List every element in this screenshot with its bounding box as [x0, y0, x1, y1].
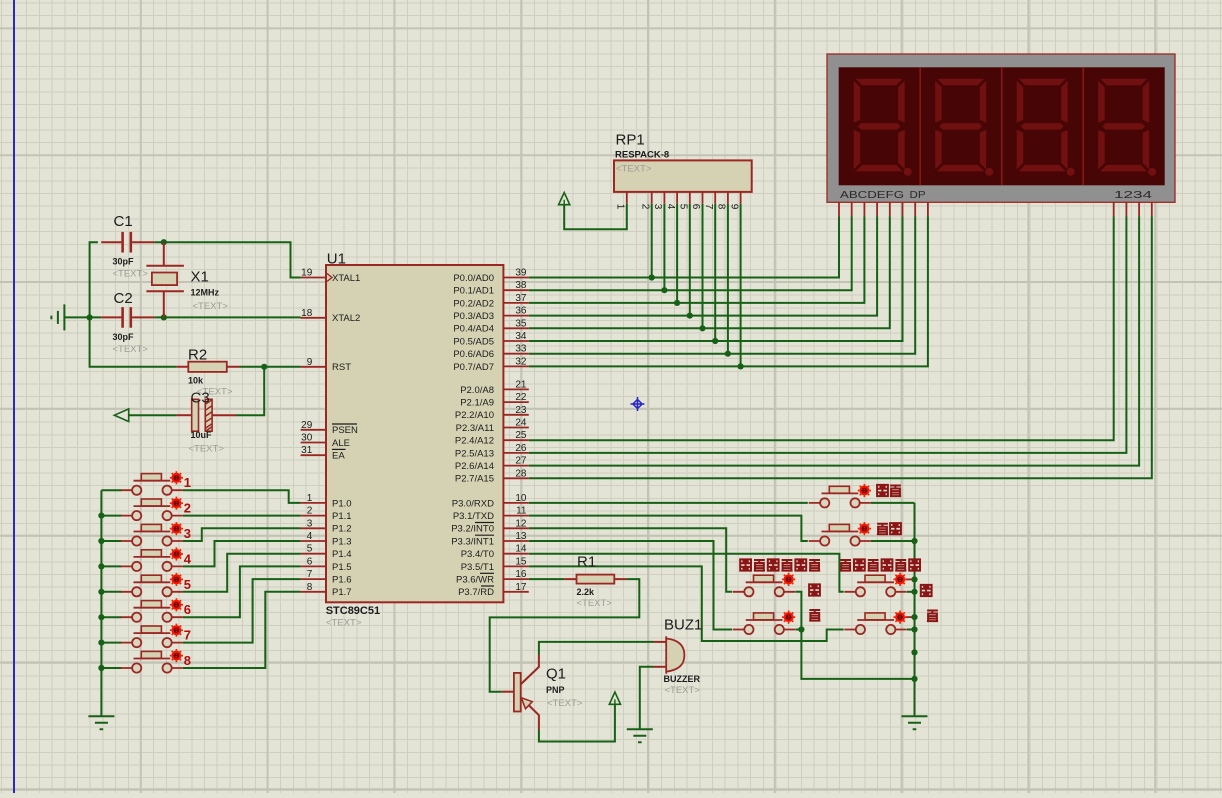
svg-text:Q1: Q1: [546, 666, 566, 683]
buzzer BUZ1 body: [666, 636, 684, 674]
svg-text:8: 8: [307, 582, 313, 593]
ground (button rail): [902, 716, 928, 729]
svg-text:<TEXT>: <TEXT>: [113, 269, 149, 280]
svg-text:P1.6: P1.6: [332, 575, 352, 586]
svg-text:<TEXT>: <TEXT>: [113, 344, 149, 355]
svg-text:21: 21: [515, 379, 527, 390]
svg-text:1: 1: [184, 475, 191, 490]
svg-text:3: 3: [307, 518, 313, 529]
wire P0.3 net: [529, 216, 877, 316]
ground (buzzer): [627, 729, 653, 742]
push button L-decrease (jian): [733, 611, 795, 635]
digit 2: [935, 79, 993, 176]
wire R inc right: [907, 591, 915, 593]
junction rail-Lgroup: [911, 676, 917, 682]
svg-text:PNP: PNP: [546, 685, 565, 695]
wire P3.4 net (R inc btn): [529, 554, 844, 592]
digit 1: [854, 79, 912, 176]
junction rail-Rinc: [911, 589, 917, 595]
svg-text:25: 25: [515, 430, 527, 441]
wire RP1 pin6 drop: [702, 204, 704, 328]
wire P3.6 net to R1: [529, 578, 564, 580]
svg-text:2: 2: [307, 506, 313, 517]
svg-text:XTAL1: XTAL1: [332, 273, 360, 284]
wire P3.5 net (R dec btn): [529, 566, 844, 641]
wire button rail: [101, 490, 121, 716]
svg-text:19: 19: [301, 268, 313, 279]
svg-text:X1: X1: [191, 269, 209, 286]
junction rail-Rdec-star: [911, 614, 917, 620]
svg-text:14: 14: [515, 544, 527, 555]
push button START (qidong): [809, 484, 871, 508]
wire R inc star stub: [906, 578, 915, 580]
push button R-decrease (jian): [844, 611, 906, 635]
svg-text:24: 24: [515, 418, 527, 429]
junction rail-button2: [98, 513, 104, 519]
svg-text:4: 4: [665, 204, 676, 210]
push button 2: [121, 497, 183, 521]
svg-text:23: 23: [515, 405, 527, 416]
svg-text:17: 17: [515, 582, 527, 593]
resistor R1: [577, 575, 615, 584]
wire C3 to arrow: [129, 414, 177, 416]
RP1 pin stubs: [627, 192, 741, 204]
push button 7: [121, 624, 183, 648]
svg-text:P1.5: P1.5: [332, 562, 352, 573]
svg-text:P0.4/AD4: P0.4/AD4: [453, 324, 494, 335]
svg-text:8: 8: [184, 653, 191, 668]
wire C1 pins: [101, 241, 154, 243]
svg-text:27: 27: [515, 456, 527, 467]
svg-text:P2.0/A8: P2.0/A8: [460, 385, 494, 396]
svg-text:2.2k: 2.2k: [577, 587, 596, 597]
wire BUZ1 top pin: [654, 641, 667, 643]
junction P0.6-RP1 junction: [725, 351, 731, 357]
junction RST node: [261, 364, 267, 370]
push button 6: [121, 598, 183, 622]
svg-text:6: 6: [184, 602, 191, 617]
svg-text:BUZZER: BUZZER: [664, 674, 701, 684]
wire P0.6 net: [529, 216, 915, 354]
svg-text:P2.2/A10: P2.2/A10: [455, 410, 494, 421]
wire P0.0 net: [529, 216, 839, 277]
wire RP1 pin3 drop: [663, 204, 665, 290]
svg-text:4: 4: [307, 531, 313, 542]
junction rail-button8: [98, 665, 104, 671]
svg-text:15: 15: [515, 556, 527, 567]
wire R dec star stub: [906, 616, 915, 618]
wire RP1 pin7 drop: [714, 204, 716, 341]
svg-text:<TEXT>: <TEXT>: [193, 301, 229, 312]
junction rail-button6: [98, 614, 104, 620]
junction rail-button3: [98, 538, 104, 544]
svg-text:10: 10: [515, 493, 527, 504]
capacitor C1: [123, 232, 131, 253]
junction GND node: [87, 314, 93, 320]
digit 4: [1098, 79, 1156, 176]
wire P2.5 net (digit 2): [529, 216, 1127, 453]
svg-text:5: 5: [184, 577, 191, 592]
svg-text:P1.2: P1.2: [332, 524, 352, 535]
wire P3.2 net (L inc btn): [529, 528, 732, 592]
svg-text:R2: R2: [188, 347, 207, 364]
wire RP1 pin2 drop: [651, 204, 653, 278]
wire RP1 pin8 drop: [727, 204, 729, 354]
svg-text:P0.2/AD2: P0.2/AD2: [453, 298, 494, 309]
svg-text:6: 6: [307, 556, 313, 567]
svg-text:<TEXT>: <TEXT>: [665, 685, 701, 696]
wire XTAL1 net: [154, 242, 300, 277]
svg-text:30pF: 30pF: [113, 257, 135, 267]
junction rail-mid: [911, 649, 917, 655]
wire Q1 emitter pin: [521, 698, 539, 730]
wire RP1 pin1 to VCC: [564, 204, 627, 229]
power terminal VCC (RP1): [559, 193, 570, 205]
digit 3: [1017, 79, 1075, 176]
wire GND to C2: [64, 316, 101, 318]
svg-text:36: 36: [515, 306, 527, 317]
wire RST net: [240, 366, 301, 368]
ground (button column): [88, 716, 114, 729]
wire P0.5 net: [529, 216, 903, 341]
wire P2.4 net (digit 1): [529, 216, 1114, 440]
svg-text:26: 26: [515, 443, 527, 454]
label jia: [809, 584, 820, 595]
wire button8 to P1.7: [183, 592, 301, 668]
wire BUZ1 to ground: [640, 667, 654, 730]
svg-text:ALE: ALE: [332, 438, 350, 449]
wire button8 left branch: [101, 667, 121, 669]
wire Q1 base pin: [502, 691, 514, 693]
svg-text:7: 7: [307, 569, 313, 580]
svg-text:5: 5: [678, 204, 689, 210]
junction P0.0-RP1 junction: [649, 274, 655, 280]
Q1 emitter arrow: [521, 698, 532, 709]
wire P2.7 net (digit 4): [529, 216, 1152, 478]
transistor Q1 base bar: [514, 673, 521, 712]
push button 5: [121, 573, 183, 597]
wire RP1 pin9 drop: [740, 204, 742, 367]
label fuwei (reset): [877, 523, 888, 534]
svg-text:9: 9: [307, 357, 313, 368]
svg-text:DP: DP: [910, 189, 926, 201]
wire start btn right: [871, 502, 915, 504]
wire R1 pins: [564, 578, 626, 580]
svg-text:18: 18: [301, 308, 313, 319]
push button 8: [121, 649, 183, 673]
svg-text:P0.1/AD1: P0.1/AD1: [453, 286, 494, 297]
junction rail-Rdec: [911, 626, 917, 632]
svg-text:P3.3/INT1: P3.3/INT1: [451, 536, 494, 547]
push button 4: [121, 547, 183, 571]
svg-text:31: 31: [301, 445, 313, 456]
svg-text:P1.4: P1.4: [332, 549, 352, 560]
svg-text:U1: U1: [327, 251, 346, 268]
wire button5 to P1.4: [183, 554, 301, 592]
wire button5 left branch: [101, 591, 121, 593]
svg-text:10k: 10k: [188, 376, 204, 386]
wire X1 bottom pin: [163, 291, 165, 317]
svg-text:1: 1: [615, 204, 626, 210]
wire L inc right: [795, 592, 801, 630]
capacitor C3 (polarized): [192, 399, 199, 431]
svg-text:<TEXT>: <TEXT>: [616, 164, 652, 175]
wire R1 to Q1 base: [490, 579, 640, 692]
push button 3: [121, 522, 183, 546]
svg-text:<TEXT>: <TEXT>: [577, 598, 613, 609]
svg-text:ABCDEFG: ABCDEFG: [840, 189, 904, 201]
svg-text:P0.0/AD0: P0.0/AD0: [453, 273, 494, 284]
svg-text:C1: C1: [114, 213, 133, 230]
svg-text:22: 22: [515, 392, 527, 403]
svg-text:P3.1/TXD: P3.1/TXD: [453, 511, 494, 522]
wire P3.0 net (start btn): [529, 502, 808, 504]
wire ground rail: [914, 503, 916, 716]
wire reset btn right: [871, 540, 915, 542]
svg-text:<TEXT>: <TEXT>: [189, 444, 225, 455]
svg-text:P3.4/T0: P3.4/T0: [461, 549, 494, 560]
junction rail-button7: [98, 640, 104, 646]
svg-text:RST: RST: [332, 362, 351, 373]
svg-text:1234: 1234: [1114, 189, 1152, 201]
wire button7 to P1.6: [183, 579, 301, 643]
svg-text:<TEXT>: <TEXT>: [547, 698, 583, 709]
svg-text:R1: R1: [577, 554, 596, 571]
U1 right pin stubs: [503, 278, 528, 592]
junction C1-X1 node: [161, 239, 167, 245]
junction rail-button5: [98, 589, 104, 595]
wire C2 pins: [101, 316, 154, 318]
junction rail-button4: [98, 563, 104, 569]
label jia (right): [921, 585, 932, 596]
svg-text:P0.6/AD6: P0.6/AD6: [453, 349, 494, 360]
svg-text:P2.7/A15: P2.7/A15: [455, 474, 494, 485]
junction rail-Rinc-star: [911, 576, 917, 582]
wire Q1 collector pin: [521, 655, 539, 685]
svg-text:1: 1: [307, 493, 313, 504]
wire R dec right: [907, 629, 915, 631]
svg-text:P2.1/A9: P2.1/A9: [460, 398, 494, 409]
svg-text:RESPACK-8: RESPACK-8: [615, 150, 669, 161]
label qidong (start): [877, 485, 888, 496]
svg-text:2: 2: [639, 204, 650, 210]
U1 XTAL1 clock mark: [327, 274, 332, 282]
svg-text:3: 3: [652, 204, 663, 210]
wire L dec right: [795, 629, 801, 631]
svg-text:P0.7/AD7: P0.7/AD7: [453, 362, 494, 373]
svg-text:11: 11: [516, 506, 527, 517]
junction P0.3-RP1 junction: [687, 313, 693, 319]
wire RP1 pin4 drop: [676, 204, 678, 303]
junction P0.1-RP1 junction: [661, 287, 667, 293]
power terminal VCC (Q1 emitter): [609, 692, 620, 704]
svg-text:34: 34: [515, 331, 527, 342]
svg-text:30: 30: [301, 433, 313, 444]
label jian: [809, 609, 820, 620]
crystal X1: [146, 266, 184, 292]
wire RP1 pin5 drop: [689, 204, 691, 316]
svg-text:2: 2: [184, 501, 191, 516]
junction C2-X1 node: [161, 314, 167, 320]
svg-text:EA: EA: [332, 451, 345, 462]
wire X1 top pin: [163, 242, 165, 266]
svg-text:P2.3/A11: P2.3/A11: [456, 423, 494, 434]
svg-text:29: 29: [301, 420, 313, 431]
sheet border (blue): [13, 0, 15, 793]
junction P0.7-RP1 junction: [738, 363, 744, 369]
svg-text:39: 39: [515, 268, 527, 279]
display pins: [839, 202, 1152, 216]
svg-text:30pF: 30pF: [113, 332, 135, 342]
display digit separators: [920, 67, 1083, 185]
wire C3 branch: [236, 367, 264, 415]
svg-text:7: 7: [703, 204, 714, 210]
svg-text:4: 4: [184, 551, 192, 566]
svg-text:12: 12: [515, 518, 527, 529]
wire P3.1 net (reset btn): [529, 516, 808, 541]
wire P0.2 net: [529, 216, 865, 303]
svg-text:35: 35: [515, 318, 527, 329]
svg-text:P3.0/RXD: P3.0/RXD: [452, 498, 494, 509]
svg-text:P2.5/A13: P2.5/A13: [455, 448, 494, 459]
svg-text:6: 6: [690, 204, 701, 210]
svg-text:12MHz: 12MHz: [191, 288, 220, 298]
wire XTAL2 net: [154, 316, 300, 318]
wire button1 to P1.0: [183, 490, 301, 503]
svg-text:P3.6/WR: P3.6/WR: [456, 575, 494, 586]
wire button4 to P1.3: [183, 541, 301, 566]
svg-text:P1.7: P1.7: [332, 587, 352, 598]
svg-text:P0.3/AD3: P0.3/AD3: [453, 311, 494, 322]
title tiaozheng dati shijian: [840, 559, 851, 570]
IC U1 STC89C51 body: [326, 265, 503, 602]
wire P0.1 net: [529, 216, 852, 290]
svg-text:38: 38: [515, 280, 527, 291]
svg-text:P3.2/INT0: P3.2/INT0: [451, 524, 494, 535]
wire C3 left pin: [176, 414, 191, 416]
junction rail-reset: [911, 538, 917, 544]
wire Q1 collector to BUZ1: [539, 642, 654, 655]
junction P0.5-RP1 junction: [712, 338, 718, 344]
wire R2 pins: [176, 366, 239, 368]
resistor R2: [188, 362, 227, 372]
wire button2 left branch: [101, 515, 121, 517]
wire button3 to P1.2: [183, 528, 301, 541]
svg-text:<TEXT>: <TEXT>: [326, 618, 362, 629]
wire button6 to P1.5: [183, 566, 301, 617]
push button 1: [121, 471, 183, 495]
svg-text:C2: C2: [114, 290, 133, 307]
wire Q1 emitter to VCC: [539, 704, 615, 741]
U1 left pin stubs: [301, 278, 326, 592]
wire button3 left branch: [101, 540, 121, 542]
svg-text:P3.7/RD: P3.7/RD: [458, 587, 494, 598]
wire P0.4 net: [529, 216, 890, 328]
wire button6 left branch: [101, 616, 121, 618]
svg-text:37: 37: [515, 293, 527, 304]
svg-text:C3: C3: [191, 390, 210, 407]
wire L group to rail: [801, 630, 914, 679]
svg-text:28: 28: [515, 468, 527, 479]
svg-text:10uF: 10uF: [191, 430, 213, 440]
wire P3.3 net (L dec btn): [529, 541, 732, 630]
7-segment display body: [827, 54, 1175, 202]
svg-text:13: 13: [515, 531, 527, 542]
junction L group node: [798, 626, 804, 632]
wire button4 left branch: [101, 565, 121, 567]
svg-text:BUZ1: BUZ1: [664, 617, 702, 634]
wire BUZ1 bottom pin: [654, 666, 667, 668]
svg-text:16: 16: [515, 569, 527, 580]
push button L-increase (jia): [733, 573, 795, 597]
svg-text:9: 9: [728, 204, 739, 210]
junction P0.2-RP1 junction: [674, 300, 680, 306]
svg-text:P0.5/AD5: P0.5/AD5: [453, 336, 494, 347]
svg-text:XTAL2: XTAL2: [332, 313, 360, 324]
wire C3 right pin: [212, 414, 236, 416]
svg-text:7: 7: [184, 628, 191, 643]
label jian (right): [927, 610, 938, 621]
svg-text:3: 3: [184, 526, 191, 541]
svg-text:33: 33: [515, 344, 527, 355]
svg-text:8: 8: [716, 204, 727, 210]
svg-text:STC89C51: STC89C51: [326, 605, 380, 617]
ground (crystal circuit): [51, 304, 64, 330]
svg-text:P3.5/T1: P3.5/T1: [461, 562, 494, 573]
junction P0.4-RP1 junction: [699, 325, 705, 331]
wire P2.6 net (digit 3): [529, 216, 1139, 466]
wire P0.7 net: [529, 216, 928, 366]
svg-text:RP1: RP1: [616, 132, 645, 149]
resistor pack RP1 body: [614, 160, 752, 192]
svg-text:5: 5: [307, 544, 313, 555]
svg-text:P1.0: P1.0: [332, 498, 352, 509]
svg-text:32: 32: [515, 356, 527, 367]
wire button2 to P1.1: [183, 515, 301, 517]
capacitor C2: [123, 307, 131, 328]
display window: [839, 67, 1165, 185]
svg-text:P2.4/A12: P2.4/A12: [455, 436, 494, 447]
svg-text:PSEN: PSEN: [332, 425, 358, 436]
push button RESET (fuwei): [809, 522, 871, 546]
power terminal (reset), points left: [114, 409, 128, 422]
wire button7 left branch: [101, 642, 121, 644]
title tiaozheng qiangda shijian: [740, 559, 751, 570]
push button R-increase (jia): [844, 573, 906, 597]
origin marker: [631, 397, 645, 411]
svg-text:P2.6/A14: P2.6/A14: [455, 461, 494, 472]
svg-text:P1.1: P1.1: [332, 511, 352, 522]
wire C1 left / left loop: [90, 242, 177, 367]
svg-text:P1.3: P1.3: [332, 536, 352, 547]
